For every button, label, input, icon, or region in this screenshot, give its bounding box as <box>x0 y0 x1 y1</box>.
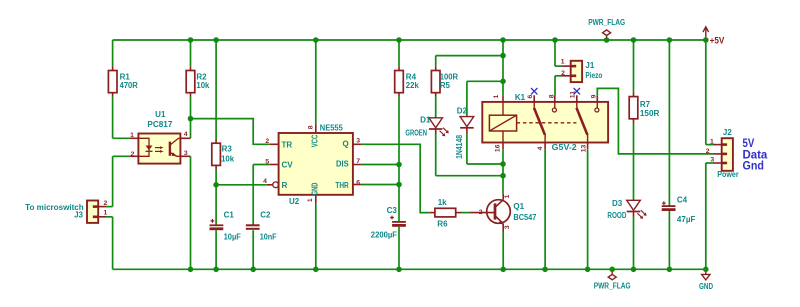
resistor R1 <box>108 40 138 138</box>
svg-text:1: 1 <box>104 210 108 217</box>
svg-text:4: 4 <box>184 131 188 138</box>
wire relay pin 13 to rail <box>587 143 589 270</box>
no-connect X pin 6 <box>531 88 537 94</box>
no-connect X pin 11 <box>574 88 580 94</box>
transistor Q1 BC547 <box>470 194 537 269</box>
capacitor C2 <box>246 165 277 270</box>
svg-text:C3: C3 <box>387 206 398 215</box>
connector J2 Power <box>706 40 768 269</box>
resistor R2 <box>186 40 210 119</box>
svg-text:GROEN: GROEN <box>405 128 427 137</box>
timer U2 NE555 <box>263 123 360 206</box>
svg-text:G5V-2: G5V-2 <box>552 143 578 152</box>
capacitor C1 <box>210 210 241 269</box>
svg-text:PWR_FLAG: PWR_FLAG <box>588 18 625 27</box>
svg-text:C1: C1 <box>224 210 235 219</box>
svg-text:6: 6 <box>356 180 360 187</box>
svg-text:13: 13 <box>580 145 587 153</box>
junction dots middle <box>188 53 506 188</box>
svg-text:Gnd: Gnd <box>743 160 764 172</box>
svg-text:Piezo: Piezo <box>585 71 602 80</box>
relay K1 G5V-2 <box>482 91 608 152</box>
svg-text:4: 4 <box>537 146 544 150</box>
resistor R4 <box>395 40 420 222</box>
wire bottom GND rail <box>113 268 706 270</box>
svg-text:2: 2 <box>479 209 483 216</box>
svg-text:470R: 470R <box>120 81 138 90</box>
svg-text:VCC: VCC <box>311 135 320 148</box>
svg-text:10nF: 10nF <box>260 233 277 242</box>
GND power symbol <box>699 269 713 291</box>
svg-text:8: 8 <box>308 125 315 129</box>
svg-text:1: 1 <box>130 132 134 139</box>
svg-text:100R: 100R <box>440 72 459 81</box>
svg-text:D3: D3 <box>612 199 623 208</box>
svg-text:R2: R2 <box>196 72 207 81</box>
wire CV pin to C2 <box>253 164 278 166</box>
resistor R6 <box>430 198 470 228</box>
svg-text:1: 1 <box>710 139 714 146</box>
svg-text:10k: 10k <box>221 154 235 163</box>
wire relay coil pin 16 to Q1 collector <box>502 143 504 194</box>
svg-text:D2: D2 <box>457 106 468 115</box>
svg-text:3: 3 <box>504 225 511 229</box>
relay pin 11 stub <box>576 95 578 102</box>
wire R3 to 555 reset pin <box>216 184 267 186</box>
svg-text:R7: R7 <box>640 100 651 109</box>
svg-text:NE555: NE555 <box>320 123 344 132</box>
capacitor C3 <box>371 206 406 269</box>
svg-text:1k: 1k <box>438 198 447 207</box>
svg-text:R4: R4 <box>406 72 417 81</box>
svg-text:2: 2 <box>561 70 565 77</box>
svg-text:2: 2 <box>104 200 108 207</box>
resistor R3 <box>212 40 235 225</box>
power flag bottom <box>594 269 631 290</box>
junction dots bottom rail <box>188 267 709 273</box>
relay pin 6 stub <box>533 95 535 102</box>
svg-text:6: 6 <box>527 94 534 98</box>
svg-text:9: 9 <box>590 94 597 98</box>
svg-text:R6: R6 <box>437 220 448 229</box>
svg-text:Q1: Q1 <box>513 202 524 211</box>
svg-text:+5V: +5V <box>710 36 725 46</box>
wire top +5V rail <box>113 39 706 41</box>
svg-text:R: R <box>282 181 288 190</box>
svg-text:TR: TR <box>282 140 293 149</box>
svg-text:4: 4 <box>263 178 267 185</box>
svg-text:BC547: BC547 <box>513 213 537 222</box>
diode D2 1N4148 <box>455 81 503 164</box>
svg-text:CV: CV <box>282 161 294 170</box>
svg-text:D1: D1 <box>420 115 431 124</box>
svg-text:J1: J1 <box>585 61 594 70</box>
svg-text:THR: THR <box>335 181 348 190</box>
svg-text:1: 1 <box>493 94 500 98</box>
svg-text:1: 1 <box>561 59 565 66</box>
wire Q pin 3 to R6 <box>353 144 430 212</box>
svg-text:GND: GND <box>311 183 320 196</box>
wire relay coil pin 1 to rail <box>502 40 504 102</box>
optocoupler U1 PC817 <box>113 110 191 269</box>
svg-text:DIS: DIS <box>336 160 349 169</box>
svg-text:150R: 150R <box>640 109 660 118</box>
wire relay pin 4 to rail <box>544 143 546 270</box>
svg-text:1N4148: 1N4148 <box>455 134 464 158</box>
resistor R5 <box>431 56 503 118</box>
wire relay pin 9 to J2 pin 2 Data <box>597 88 713 153</box>
svg-text:2200µF: 2200µF <box>371 230 397 239</box>
wire 555 VCC pin 8 to rail <box>315 40 317 133</box>
wire R pin stub with invert bubble <box>267 182 279 188</box>
svg-text:C2: C2 <box>260 210 271 219</box>
junction dots top rail <box>188 37 709 43</box>
svg-text:1: 1 <box>307 198 314 202</box>
connector J3 To microswitch <box>25 200 112 269</box>
svg-text:R3: R3 <box>222 144 233 153</box>
svg-text:10k: 10k <box>196 81 210 90</box>
wire DIS pin 7 <box>353 164 399 166</box>
svg-text:K1: K1 <box>515 93 526 102</box>
wire 555 GND pin 1 to rail <box>315 195 317 269</box>
connector J1 Piezo <box>555 40 603 102</box>
wire TR net from R2 junction to 555 <box>191 119 279 145</box>
svg-text:Power: Power <box>717 170 738 179</box>
svg-text:2: 2 <box>706 148 710 155</box>
LED D1 GROEN <box>405 115 503 175</box>
svg-text:1: 1 <box>504 194 511 198</box>
svg-text:47µF: 47µF <box>677 215 696 224</box>
svg-text:16: 16 <box>494 144 501 152</box>
svg-text:2: 2 <box>131 151 135 158</box>
svg-text:J2: J2 <box>723 128 732 137</box>
svg-text:ROOD: ROOD <box>607 211 626 220</box>
LED D3 ROOD <box>607 199 646 269</box>
svg-text:2: 2 <box>265 138 269 145</box>
svg-text:C4: C4 <box>677 195 688 204</box>
svg-text:R5: R5 <box>440 81 451 90</box>
resistor R7 <box>629 40 659 200</box>
svg-text:PWR_FLAG: PWR_FLAG <box>594 281 631 290</box>
svg-text:J3: J3 <box>74 210 83 219</box>
svg-text:GND: GND <box>699 282 713 291</box>
svg-text:U1: U1 <box>155 110 166 119</box>
svg-text:10µF: 10µF <box>224 233 241 242</box>
svg-text:R1: R1 <box>120 72 131 81</box>
wire THR pin 6 <box>353 184 399 186</box>
svg-text:PC817: PC817 <box>147 120 173 129</box>
svg-text:3: 3 <box>184 150 188 157</box>
svg-text:3: 3 <box>710 157 714 164</box>
svg-text:Q: Q <box>342 140 348 149</box>
svg-text:U2: U2 <box>289 197 300 206</box>
svg-text:22k: 22k <box>406 81 420 90</box>
power flag top <box>588 18 625 40</box>
svg-text:5: 5 <box>265 158 269 165</box>
capacitor C4 <box>662 40 696 269</box>
+5V power symbol <box>703 27 725 46</box>
